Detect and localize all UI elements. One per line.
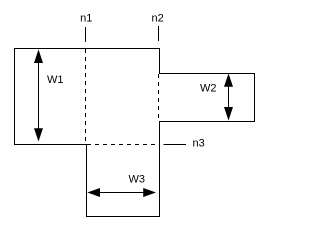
svg-text:n1: n1 [80,13,92,25]
svg-text:n2: n2 [151,13,163,25]
svg-text:n3: n3 [193,138,205,150]
svg-text:W2: W2 [200,83,217,95]
svg-text:W3: W3 [129,174,146,186]
svg-text:W1: W1 [47,74,64,86]
